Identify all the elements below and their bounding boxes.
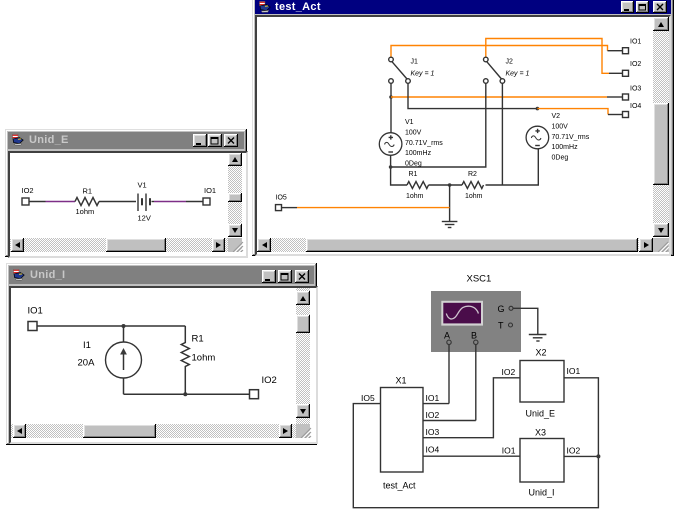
wire I1 bottom stub [123,378,125,394]
connector IO1 [623,39,642,54]
oscilloscope XSC1 [431,274,521,353]
wire IO2 to R1 [29,201,46,203]
wire scope G to ground [513,308,538,334]
resize grip [653,238,669,252]
svg-text:V1: V1 [405,119,414,126]
connector IO1 [203,186,216,205]
connector IO4 [623,103,642,118]
wire to IO1 [186,201,203,203]
horizontal scrollbar [10,238,228,252]
wire purple segment right [154,201,186,203]
svg-text:IO1: IO1 [204,186,216,195]
svg-text:1ohm: 1ohm [76,207,95,216]
wire purple segment left [46,201,76,203]
resistor R1 [75,187,99,216]
svg-text:V1: V1 [138,181,147,190]
svg-text:IO1: IO1 [426,393,440,403]
svg-text:I1: I1 [83,340,91,351]
wire IO4 stub [608,114,623,116]
svg-text:100mHz: 100mHz [405,150,432,157]
svg-text:0Deg: 0Deg [405,160,422,167]
wire ground drop [449,185,451,221]
client area [8,151,248,258]
svg-text:T: T [498,321,504,331]
wire X1.IO3 to X2.IO2 [423,378,520,438]
wire IO5 stub [282,207,298,209]
svg-text:X2: X2 [536,348,547,358]
connector IO1 [28,306,43,331]
svg-text:X1: X1 [396,376,407,386]
wire IO3 stub [607,96,623,98]
wire scope A to X1 IO1 [448,345,450,404]
connector IO2 [250,375,277,399]
wire scope B to X1 IO2 [475,345,477,421]
window Unid_E (inactive) [5,129,247,257]
resistor R1 [406,171,429,200]
svg-text:12V: 12V [138,214,151,223]
svg-text:G: G [498,304,505,314]
subcircuit block X3 Unid_I [502,427,581,497]
svg-text:IO5: IO5 [361,393,375,403]
subcircuit block X1 test_Act [361,376,439,491]
current source I1 [78,340,142,378]
wire R1 to battery [99,201,136,203]
schematic inside test_Act [257,17,653,238]
svg-text:100V: 100V [552,124,569,131]
svg-text:70.71V_rms: 70.71V_rms [552,134,590,141]
wire R2 to V2 bottom [486,149,539,185]
wire battery right [152,201,155,203]
wire orange J2 top to IO2 [486,39,609,74]
wire R1 to junction [429,184,463,186]
svg-text:100mHz: 100mHz [552,144,579,151]
wire X3.IO2 to junction [564,455,598,457]
svg-text:100V: 100V [405,130,422,137]
node junction top [122,324,126,328]
wire bottom rail [124,393,250,395]
svg-text:A: A [444,331,450,341]
wire orange IO5 to ground net [297,207,450,209]
schematic inside Unid_I [11,288,296,424]
resistor R2 [462,171,484,200]
svg-text:IO2: IO2 [22,186,34,195]
resize grip [296,424,310,438]
ground [529,335,547,342]
connector IO5 [276,195,287,211]
svg-text:R1: R1 [83,187,93,196]
svg-text:R1: R1 [192,334,204,345]
svg-text:1ohm: 1ohm [406,193,424,200]
svg-text:20A: 20A [78,358,96,369]
svg-text:IO1: IO1 [567,366,581,376]
AC source V1 [379,119,443,167]
wire IO2 stub [609,72,623,74]
svg-text:J2: J2 [506,59,514,66]
wire IO1 stub [608,50,623,52]
svg-text:IO2: IO2 [262,375,277,386]
vertical scrollbar [653,17,669,237]
wire X1.IO1 [423,403,449,405]
wire X1.IO5 loop to bottom rail [353,404,598,508]
svg-text:B: B [471,331,477,341]
wire J1 bottom-right to V2 top junction [408,83,537,108]
svg-text:V2: V2 [552,113,561,120]
svg-text:IO2: IO2 [426,410,440,420]
wire top rail [37,325,185,327]
wire orange IO4 [537,109,608,115]
wire orange J1 top to IO1 [391,46,608,58]
connector IO2 [623,61,642,76]
svg-text:IO3: IO3 [426,427,440,437]
schematic inside Unid_E [10,153,228,237]
node junction V2 top [536,107,540,111]
svg-text:R1: R1 [409,171,418,178]
svg-text:J1: J1 [411,59,419,66]
wire J2 bottom-right down to R2 row [501,83,503,185]
connector IO3 [623,86,642,101]
svg-text:IO2: IO2 [567,446,581,456]
svg-text:IO3: IO3 [630,86,641,93]
resistor R1 vertical [181,326,215,394]
svg-text:IO1: IO1 [630,39,641,46]
node junction bottom [183,392,187,396]
svg-text:IO4: IO4 [630,103,641,110]
svg-text:IO2: IO2 [502,367,516,377]
svg-text:XSC1: XSC1 [467,274,492,285]
svg-text:IO4: IO4 [426,445,440,455]
node junction right [596,454,600,458]
window Unid_I (inactive) [6,263,317,445]
svg-text:IO1: IO1 [28,306,43,317]
svg-text:Key = 1: Key = 1 [411,71,435,78]
window test_Act (active) [252,0,674,256]
svg-text:R2: R2 [468,171,477,178]
svg-text:1ohm: 1ohm [192,353,216,364]
client area [9,286,318,444]
resize grip [228,238,242,252]
vertical scrollbar [296,288,310,438]
wire I1 top stub [123,326,125,342]
svg-text:Key = 1: Key = 1 [506,71,530,78]
wire orange IO3 [391,96,607,98]
svg-text:IO5: IO5 [276,195,287,202]
svg-text:IO2: IO2 [630,61,641,68]
battery V1 [138,181,151,223]
wire X1.IO2 [423,420,476,422]
svg-text:70.71V_rms: 70.71V_rms [405,140,443,147]
wire J1 bottom-left down to V1 [390,83,392,132]
wire X1.IO4 to X3.IO1 [423,455,520,457]
client area [255,15,671,256]
AC source V2 [526,113,590,161]
wire J2 bottom-left down [391,83,486,167]
node junction ground tap [448,183,452,187]
svg-text:Unid_E: Unid_E [526,409,556,419]
horizontal scrollbar [257,238,653,252]
connector IO2 [22,186,34,205]
svg-text:Unid_I: Unid_I [529,488,555,498]
svg-text:X3: X3 [535,427,546,437]
node junction V1 bottom [389,165,393,169]
switch J2 [484,57,530,83]
wire V1 bottom to R1 [391,155,407,185]
ground [442,222,458,228]
svg-text:test_Act: test_Act [383,481,416,491]
svg-text:0Deg: 0Deg [552,154,569,161]
subcircuit block X2 Unid_E [502,348,581,419]
svg-text:1ohm: 1ohm [465,193,483,200]
vertical scrollbar [228,153,242,237]
node junction IO3 tap [389,95,393,99]
horizontal scrollbar [11,424,296,438]
svg-text:IO1: IO1 [502,446,516,456]
wire X2.IO1 to junction [564,378,598,457]
switch J1 [389,57,435,83]
